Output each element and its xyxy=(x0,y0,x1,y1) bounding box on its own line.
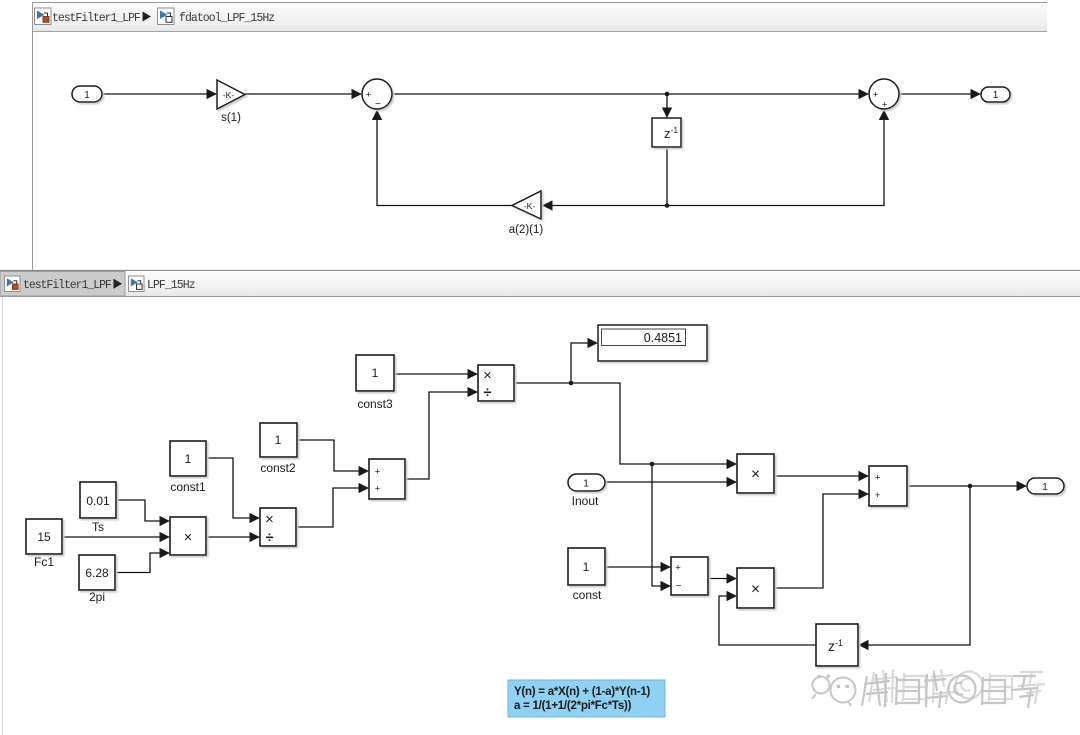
svg-text:const3: const3 xyxy=(357,397,393,411)
svg-text:Ts: Ts xyxy=(92,520,104,534)
wire 2pi to product1 input3 xyxy=(115,553,169,573)
junction node c xyxy=(968,484,973,489)
divide block D1 xyxy=(260,508,296,546)
constant block const3 value 1 xyxy=(356,355,394,411)
svg-text:÷: ÷ xyxy=(266,530,274,546)
sum block S4 (+,-) xyxy=(671,557,708,595)
junction on feedback line below z-1 xyxy=(665,203,670,208)
svg-text:Inout: Inout xyxy=(572,494,599,508)
breadcrumb separator arrow (bottom bar) xyxy=(114,279,123,289)
window chrome: top model window frame xyxy=(32,2,1047,270)
wire const3 to divide2 times input xyxy=(394,373,477,375)
breadcrumb bar bottom bottom-border xyxy=(0,296,1080,298)
sum block S5 (+,+) xyxy=(869,466,907,506)
divide block D2 xyxy=(478,365,514,401)
constant block Fc1 value 15 xyxy=(26,519,62,569)
svg-text:testFilter1_LPF: testFilter1_LPF xyxy=(52,12,141,25)
wire gain a(2)(1) output to sum1 minus input xyxy=(377,111,512,206)
wire node b to product2 input1 xyxy=(652,463,736,465)
svg-text:1: 1 xyxy=(583,560,590,574)
svg-text:0.4851: 0.4851 xyxy=(644,331,682,345)
constant block Ts value 0.01 xyxy=(80,482,116,534)
svg-text:1: 1 xyxy=(84,90,90,101)
unit delay z-1 (bottom model) xyxy=(816,624,858,666)
svg-text:fdatool_LPF_15Hz: fdatool_LPF_15Hz xyxy=(179,12,274,25)
top window left border xyxy=(32,2,34,270)
annotation note (formula) xyxy=(508,680,665,717)
svg-text:Fc1: Fc1 xyxy=(34,555,54,569)
svg-text:0.01: 0.01 xyxy=(86,494,110,508)
constant block const2 value 1 xyxy=(260,423,297,475)
sum block Sum2 (+,+) xyxy=(869,79,899,111)
watermark logo xyxy=(812,675,856,707)
wire gain s(1) to sum1 xyxy=(245,93,361,95)
bottom canvas left edge line xyxy=(2,297,4,735)
constant block const1 value 1 xyxy=(170,441,206,494)
model icon 2 (top bar) xyxy=(158,8,175,25)
svg-text:Y(n) = a*X(n) + (1-a)*Y(n-1): Y(n) = a*X(n) + (1-a)*Y(n-1) xyxy=(514,686,651,698)
product block P2 xyxy=(737,454,774,493)
svg-text:×: × xyxy=(483,368,491,384)
wire sum1 to sum2 xyxy=(392,93,868,95)
wire divide1 to sum3 input2 xyxy=(296,488,368,527)
outport Out1 (bottom model) xyxy=(1027,478,1064,494)
wire Fc1 to product1 input2 xyxy=(62,536,169,538)
wire divide2 output to node a xyxy=(514,382,571,384)
gain s(1) xyxy=(217,80,245,124)
junction node b xyxy=(650,462,655,467)
svg-text:−: − xyxy=(375,99,381,110)
wire node a up to display xyxy=(571,343,597,383)
svg-text:1: 1 xyxy=(583,479,589,490)
product block P1 (3 inputs) xyxy=(170,517,206,555)
wire to gain a(2)(1) input xyxy=(543,205,667,207)
svg-text:const1: const1 xyxy=(170,480,206,494)
product block P3 xyxy=(737,568,774,608)
unit delay z-1 (top model) xyxy=(652,118,681,147)
constant block 2pi value 6.28 xyxy=(79,555,115,604)
svg-text:1: 1 xyxy=(185,452,192,466)
wire In1 to gain s(1) xyxy=(102,93,216,95)
svg-text:s(1): s(1) xyxy=(221,112,241,124)
svg-text:+: + xyxy=(366,90,372,101)
wire product3 to sum5 input2 xyxy=(774,494,868,588)
wire node a right and down to node b xyxy=(571,383,652,464)
svg-text:const2: const2 xyxy=(260,461,296,475)
svg-text:1: 1 xyxy=(275,433,282,447)
wire product2 to sum5 input1 xyxy=(774,475,868,477)
model icon 2 (bottom bar) xyxy=(129,276,145,292)
gain a(2)(1) xyxy=(509,191,544,236)
svg-text:-K-: -K- xyxy=(223,90,235,100)
svg-text:const: const xyxy=(573,588,602,602)
window chrome: bottom model window frame xyxy=(0,271,1080,735)
wire sum5 output to node c xyxy=(907,485,970,487)
junction node a xyxy=(569,381,574,386)
wire node c to Out1 xyxy=(970,485,1026,487)
junction on main line above z-1 xyxy=(665,92,670,97)
wire sum3 to divide2 divide input xyxy=(405,392,477,479)
model icon 1 (top bar) xyxy=(35,8,52,25)
wire const to sum4 plus input xyxy=(605,566,670,568)
constant block const value 1 xyxy=(568,548,605,602)
wire unit delay output down xyxy=(666,147,668,205)
svg-text:×: × xyxy=(751,466,760,483)
svg-text:+: + xyxy=(873,90,879,101)
breadcrumb bar top bottom border xyxy=(33,31,1047,33)
display block value 0.4851 xyxy=(598,325,707,361)
svg-text:1: 1 xyxy=(372,366,379,380)
inport Inout xyxy=(568,474,605,508)
svg-text:×: × xyxy=(751,581,760,598)
top window top border xyxy=(32,2,1047,4)
svg-text:+: + xyxy=(882,100,888,111)
breadcrumb bar bottom background xyxy=(0,271,1080,296)
wire branch down to unit delay z-1 xyxy=(666,94,668,117)
inport In1 (top model) xyxy=(72,86,102,102)
svg-text:×: × xyxy=(265,512,273,528)
svg-text:-K-: -K- xyxy=(524,201,536,211)
breadcrumb separator arrow (top bar) xyxy=(143,12,152,22)
svg-text:+: + xyxy=(375,467,381,478)
svg-text:+: + xyxy=(375,484,381,495)
svg-text:+: + xyxy=(875,473,881,484)
svg-text:+: + xyxy=(675,563,681,574)
wire to sum2 plus input xyxy=(667,111,884,206)
outport Out1 (top model) xyxy=(981,87,1010,102)
sum block Sum1 (+,-) xyxy=(362,79,392,110)
svg-text:×: × xyxy=(184,530,192,546)
watermark text (stylised) xyxy=(869,669,1045,704)
bottom window top border xyxy=(0,270,1080,272)
wire const2 to sum3 input1 xyxy=(297,440,368,471)
wire const1 to divide1 times input xyxy=(206,458,259,518)
wire product1 to divide1 divide input xyxy=(206,536,259,538)
svg-text:÷: ÷ xyxy=(484,385,492,401)
svg-text:LPF_15Hz: LPF_15Hz xyxy=(147,279,195,292)
wire sum4 to product3 input1 xyxy=(708,578,736,580)
svg-text:6.28: 6.28 xyxy=(85,566,109,580)
wire node c down to unit delay input xyxy=(859,486,970,645)
selected crumb button background xyxy=(0,272,125,297)
svg-text:+: + xyxy=(875,490,881,501)
wire unit delay to product3 input2 xyxy=(719,596,816,645)
svg-text:15: 15 xyxy=(37,530,51,544)
svg-text:a = 1/(1+1/(2*pi*Fc*Ts)): a = 1/(1+1/(2*pi*Fc*Ts)) xyxy=(514,700,632,712)
svg-text:testFilter1_LPF: testFilter1_LPF xyxy=(23,279,112,292)
svg-text:a(2)(1): a(2)(1) xyxy=(509,224,544,236)
wire Ts to product1 input1 xyxy=(116,500,169,521)
svg-text:−: − xyxy=(676,581,682,592)
sum block S3 (+,+) xyxy=(369,459,405,499)
model icon 1 (bottom bar) xyxy=(5,276,21,292)
wire sum2 to Out1 xyxy=(899,93,980,95)
svg-text:1: 1 xyxy=(993,90,999,101)
wire Inout to product2 input2 xyxy=(605,481,736,483)
svg-text:2pi: 2pi xyxy=(89,590,105,604)
wire node b down to sum4 minus input xyxy=(652,464,670,586)
breadcrumb bar top background xyxy=(33,3,1047,31)
svg-text:1: 1 xyxy=(1042,482,1048,493)
